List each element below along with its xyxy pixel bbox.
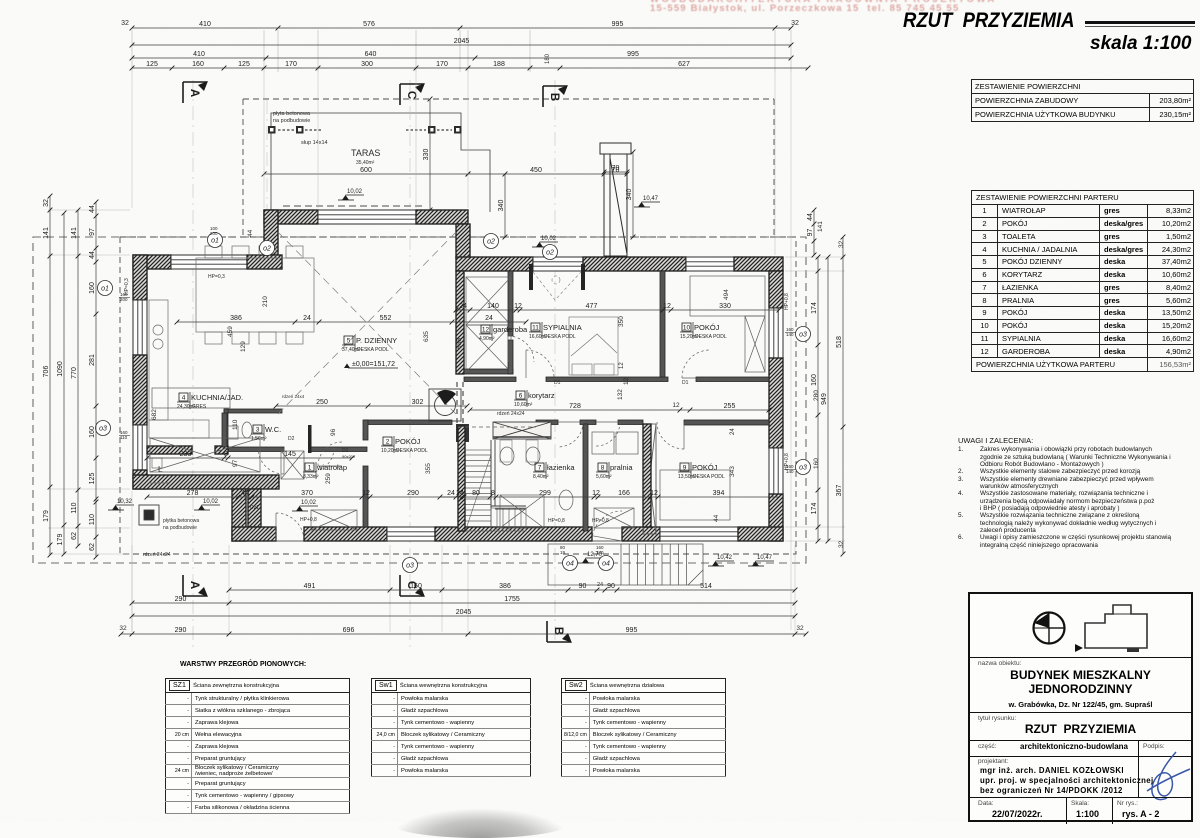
wiatrolap top wall part2	[310, 447, 367, 452]
level 10,42 bottom	[708, 555, 734, 566]
axis line B vertical	[554, 80, 556, 640]
shaft X-rect right of pantry	[281, 451, 304, 479]
exterior wall salon top left part	[264, 210, 318, 224]
window pokoj10 top	[686, 257, 734, 271]
wiatrolap wardrobe	[311, 510, 357, 530]
bottom dim row 3	[130, 609, 798, 618]
left wing top wall west part	[133, 255, 171, 269]
terrace dim 450 70	[466, 167, 630, 176]
wall pokoj2 top	[364, 420, 452, 425]
pantry wall part1	[147, 446, 192, 454]
level 10,47 bottom	[748, 555, 774, 566]
level 10,02 entrance	[194, 499, 220, 510]
level 10,32 left	[108, 499, 134, 510]
wall wiatrolap/pokoj2 lower	[363, 466, 368, 527]
axis line A vertical	[192, 80, 194, 648]
red stamp remnants top	[650, 0, 1200, 18]
window kitchen left	[133, 300, 147, 355]
wall lazienka/pralnia	[583, 424, 588, 531]
wiatrolap top wall part1	[228, 447, 284, 452]
entrance door gap	[276, 527, 304, 541]
corridor top wall part 2	[546, 377, 668, 382]
level mark 10,47 top	[634, 196, 660, 207]
corridor bottom wall lazienka 1	[536, 420, 558, 425]
grid circle o3 right bottom	[796, 460, 811, 475]
interior dim row corridor	[468, 403, 772, 412]
room 6 korytarz label	[514, 390, 555, 408]
room 7 lazienka label	[533, 462, 575, 480]
interior dim row bottom-right	[438, 490, 782, 499]
interior wall salon/right wing	[456, 271, 464, 374]
bottom dim row 2	[130, 596, 798, 605]
right wing top wall part 2	[583, 257, 686, 271]
wall sypialnia/pokoj10	[660, 271, 665, 377]
chimney dim 70	[602, 165, 630, 174]
room 1 wiatrolap label	[303, 462, 347, 480]
UWAGI I ZALECENIA notes	[958, 437, 1198, 549]
bottom wall segment 4	[622, 527, 660, 541]
door D1 wiatrolap-pokoj2	[318, 442, 342, 466]
grid circle o4 bottom 2	[599, 556, 614, 571]
door garderoba	[508, 336, 534, 362]
room 12 garderoba label	[479, 324, 528, 342]
level 10,02 wiatrolap	[292, 500, 318, 511]
terrace slab outline	[271, 113, 490, 213]
WC fixtures	[228, 422, 252, 439]
signature	[1142, 744, 1194, 806]
level 0,00 note	[344, 361, 398, 368]
exterior stairs bottom right	[548, 544, 703, 585]
bottom dim row 1	[227, 583, 798, 592]
door D2 wiatrolap-WC arc	[258, 448, 284, 474]
chimney	[600, 143, 631, 256]
window pokoj10 right	[769, 308, 783, 358]
top dim row 1	[130, 21, 794, 30]
witness extension lines bottom	[131, 545, 133, 632]
pokoj9 bed	[660, 470, 730, 520]
door pralnia	[596, 422, 620, 446]
door lazienka	[558, 422, 583, 447]
lazienka fixtures	[500, 440, 573, 528]
sypialnia terrace door jambs	[529, 264, 585, 290]
left exterior wall middle	[133, 355, 147, 425]
room 5 P.DZIENNY label	[342, 335, 397, 353]
bottom wall segment 5	[738, 527, 783, 541]
terrace vdim 330	[423, 97, 432, 213]
roof/terrace dashed outline top	[243, 98, 774, 100]
room 2 POKOJ label	[381, 436, 428, 454]
entrance door swing	[276, 513, 304, 541]
grid circle o3 left	[96, 421, 111, 436]
window dim stack top o1	[210, 226, 218, 236]
staircase	[465, 450, 526, 531]
scan artifact bottom	[390, 808, 570, 838]
title underline	[1085, 21, 1195, 24]
room 11 SYPIALNIA label	[529, 322, 582, 340]
left dim chain 3	[71, 208, 80, 549]
pantry counter with X	[150, 438, 260, 472]
wall wiatrolap/pokoj2 upper	[363, 420, 368, 440]
left exterior wall upper	[133, 255, 147, 300]
left wing bottom wall	[133, 475, 279, 489]
right dim chain small top	[807, 208, 816, 258]
section mark C top	[400, 83, 425, 105]
bottom wall segment 2	[304, 527, 387, 541]
left wing top wall east part	[247, 255, 282, 269]
level 10,02 right wing	[532, 236, 558, 247]
eaves dashed outline	[120, 237, 796, 554]
right exterior wall middle	[769, 358, 783, 448]
bottom wall segment 1	[232, 527, 276, 541]
corridor bottom wall pralnia	[618, 420, 643, 425]
terrace door gap bottom	[592, 527, 622, 541]
window dim stack right bottom	[785, 464, 796, 474]
wall garderoba/sypialnia	[508, 271, 513, 336]
plot outer dashed outline	[33, 237, 806, 563]
left exterior wall lower	[133, 470, 147, 489]
corridor bottom wall pokoj9	[684, 420, 769, 425]
room table ZESTAWIENIE POWIERZCHNI PARTERU	[971, 190, 1194, 372]
kitchen island	[152, 388, 230, 408]
room 3 WC label	[251, 424, 281, 442]
interior dim row upper-left	[175, 315, 529, 324]
corridor top wall part 3	[696, 377, 769, 382]
pokoj10 wardrobe	[690, 276, 765, 316]
wall pralnia/pokoj9	[643, 424, 651, 527]
right wing top wall part 3	[734, 257, 783, 271]
skala 1:100	[1090, 33, 1191, 55]
witness extension lines top	[131, 30, 133, 72]
right exterior wall upper	[769, 271, 783, 308]
window left wing top	[171, 255, 247, 269]
level 10,02 salon top	[338, 189, 364, 200]
fireplace	[429, 389, 461, 421]
corridor bottom wall lazienka 2	[580, 420, 596, 425]
window sypialnia top	[533, 257, 583, 271]
window pokoj9 bottom	[660, 527, 738, 541]
interior dim row bottom-left	[145, 490, 467, 499]
pantry wall part2	[215, 446, 228, 454]
wall stub garderoba bottom	[464, 369, 513, 374]
window dim stack right top	[785, 327, 796, 337]
wiatrolap top wall jamb	[308, 425, 312, 453]
top dim row 2	[130, 38, 794, 47]
terrace dim 600	[262, 167, 471, 176]
exterior wall salon top right part	[416, 210, 468, 224]
axis line o2 vertical	[266, 100, 268, 250]
terrace posts row	[268, 126, 462, 134]
witness extension lines right	[785, 256, 845, 258]
column rdzen at pokoj2 corner	[456, 424, 469, 442]
room 10 POKOJ label	[680, 322, 727, 340]
door wiatrolap-korytarz	[310, 448, 334, 472]
stairs enclosure thin walls	[491, 440, 526, 509]
left dim chain 1	[43, 194, 52, 558]
window salon top (HS door)	[318, 210, 416, 224]
right dim chain 949	[821, 255, 830, 544]
dashed eaves line over salon window	[283, 205, 424, 207]
location plan icon	[1075, 600, 1165, 652]
section mark B bottom	[547, 621, 572, 643]
right dim chain inner	[811, 255, 820, 544]
WC top wall	[224, 409, 282, 413]
terrace door swing	[593, 511, 623, 541]
grid circle o1 left	[98, 281, 113, 296]
window pantry left	[133, 425, 147, 470]
grid circle o2 top right 2	[543, 245, 558, 260]
wall I1 dashed lower part (beam over opening)	[456, 382, 458, 424]
room 9 POKOJ label	[678, 462, 725, 480]
section mark A top	[183, 81, 208, 103]
door D1 pokoj10	[682, 350, 710, 378]
summary table ZESTAWIENIE POWIERZCHNI	[971, 79, 1194, 122]
garderoba closets	[466, 277, 511, 325]
stairs top wardrobe block	[493, 422, 551, 439]
top dim row 4	[130, 61, 811, 70]
left dim chain 2	[57, 211, 66, 557]
north arrow	[1025, 604, 1075, 654]
kitchen counter left	[149, 300, 209, 483]
witness extension lines left	[48, 209, 130, 211]
grid circle o1 top	[208, 233, 223, 248]
step wall bottom-left vertical	[232, 489, 246, 541]
bottom dim row 4	[119, 627, 809, 636]
main title RZUT PRZYZIEMIA	[903, 8, 1200, 33]
grid circle o3 bottom	[403, 558, 418, 573]
right wing top wall part 1	[456, 257, 533, 271]
grid circle o4 bottom 1	[563, 556, 578, 571]
interior dim row pantry	[145, 451, 355, 460]
pantry right wall	[222, 413, 227, 447]
sypialnia terrace door dashed swing	[533, 272, 581, 300]
room 8 pralnia label	[596, 462, 633, 480]
window pokoj9 right	[769, 448, 783, 494]
salon cross dashed lines	[278, 232, 456, 414]
WC left wall	[224, 409, 228, 453]
door pokoj9	[657, 422, 684, 449]
shaft pralnia/pokoj9	[643, 424, 656, 534]
sypialnia bed	[569, 317, 618, 375]
level 12,70 bottom	[578, 552, 604, 563]
grid circle o3 right top	[796, 327, 811, 342]
exterior wall salon left connector	[264, 210, 278, 255]
grid circle o2 top	[260, 241, 275, 256]
terrace vdim 340	[498, 172, 507, 240]
entrance left jamb wall	[248, 489, 261, 527]
chimney vdim 340	[626, 150, 635, 240]
axis line C vertical	[409, 80, 411, 648]
window dim stack bottom o4 pair	[560, 545, 604, 555]
bottom-left concrete pad post	[139, 505, 159, 525]
dining table with chairs	[196, 246, 314, 344]
grid circle o2 top right	[484, 234, 499, 249]
left dim chain 4	[89, 200, 98, 560]
title block box	[968, 592, 1193, 822]
bottom wall segment 3	[435, 527, 592, 541]
room 4 KUCHNIA label	[177, 392, 243, 410]
window dim stack left bottom	[119, 430, 130, 440]
pralnia washer dryer	[592, 432, 614, 454]
garderoba right wall lower stub	[508, 340, 513, 374]
exterior wall salon right connector	[456, 224, 470, 258]
corridor-stairs dashed opening line	[458, 426, 536, 428]
section mark B top	[543, 85, 568, 107]
window dim stack left top	[119, 292, 130, 302]
top dim row 3	[130, 51, 794, 60]
door D1 sypialnia	[526, 350, 554, 378]
interior dim 250 302	[274, 399, 470, 408]
right exterior wall lower	[769, 494, 783, 541]
interior dim row upper-right	[454, 303, 782, 312]
stairs left wall	[458, 426, 465, 531]
right dim chain outer	[836, 235, 845, 557]
corridor top wall part 1	[464, 377, 516, 382]
section mark C bottom	[400, 575, 425, 597]
section mark A bottom	[183, 575, 208, 597]
window pokoj2 bottom	[387, 527, 435, 541]
